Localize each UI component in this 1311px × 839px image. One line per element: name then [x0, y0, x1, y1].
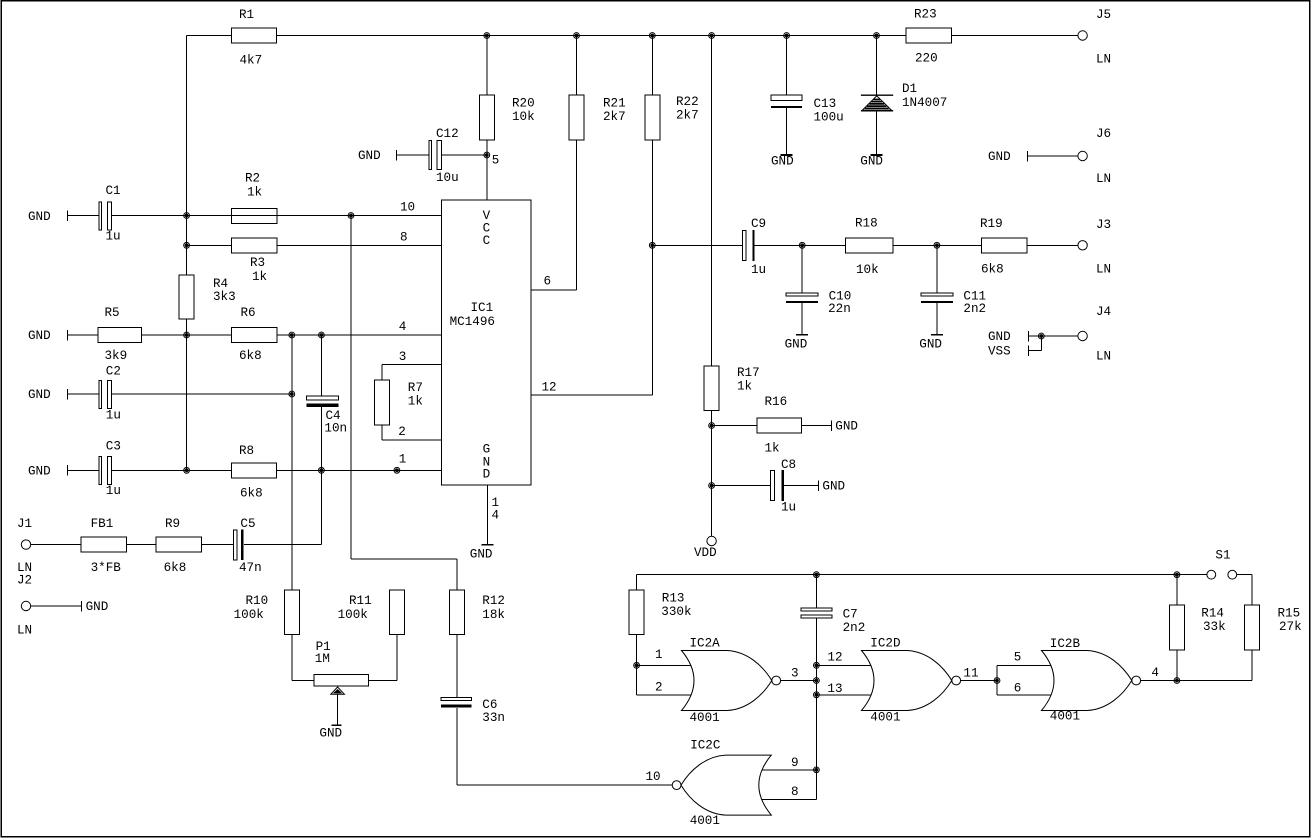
svg-text:4001: 4001 [690, 711, 720, 725]
capacitor C6 [441, 697, 505, 725]
svg-text:GND: GND [470, 547, 493, 561]
junction VCC-R17 [710, 34, 714, 38]
junction VCC-R20 [485, 34, 489, 38]
svg-text:GND: GND [919, 337, 942, 351]
svg-text:1u: 1u [106, 484, 121, 498]
svg-text:C2: C2 [106, 365, 121, 379]
wire R12 C6 to IC2C pin 10 [457, 635, 672, 786]
svg-text:12: 12 [827, 651, 842, 665]
svg-text:1: 1 [399, 453, 407, 467]
connector J5 [1078, 8, 1111, 67]
svg-text:GND: GND [319, 726, 342, 740]
capacitor C3 [99, 440, 121, 499]
svg-text:C1: C1 [106, 184, 121, 198]
junction R22-C9 [650, 243, 654, 247]
ground C1 [28, 210, 68, 224]
wire R17 VDD column [711, 36, 713, 537]
ground C3 [28, 464, 68, 478]
resistor R14 [1169, 605, 1225, 650]
wire R3 to pin 8 [187, 244, 442, 246]
junction pin11-IC2B [995, 679, 999, 683]
svg-text:100k: 100k [234, 608, 264, 622]
svg-text:R20: R20 [512, 97, 535, 111]
resistor R22 [645, 95, 699, 140]
svg-text:C7: C7 [843, 608, 858, 622]
svg-text:D: D [483, 468, 491, 482]
junction pin4-R10 [290, 333, 294, 337]
resistor R7 [374, 380, 423, 425]
connector J2 [17, 574, 32, 638]
wire R13 to IC2A inputs [637, 575, 691, 695]
svg-text:12: 12 [542, 381, 557, 395]
svg-text:GND: GND [28, 210, 51, 224]
ground J4 [988, 330, 1029, 344]
terminal VDD [694, 536, 717, 560]
svg-text:R7: R7 [408, 381, 423, 395]
svg-text:3: 3 [399, 350, 407, 364]
resistor R11 [338, 590, 405, 635]
wire J4 GND VSS [1028, 336, 1078, 351]
svg-text:6k8: 6k8 [981, 263, 1004, 277]
svg-text:2: 2 [398, 425, 406, 439]
diode D1 1N4007 [861, 82, 947, 111]
resistor R9 [156, 517, 201, 575]
junction pin12 [815, 663, 819, 667]
resistor R17 [704, 366, 760, 411]
ground C8 [819, 480, 846, 494]
svg-text:10: 10 [400, 201, 415, 215]
resistor R3 [232, 238, 278, 284]
wire IC2A output pin 3 [781, 680, 817, 682]
svg-text:J3: J3 [1096, 218, 1111, 232]
svg-text:FB1: FB1 [91, 517, 114, 531]
svg-text:4: 4 [399, 320, 407, 334]
wire IC2C input stubs [762, 770, 816, 800]
svg-text:LN: LN [1096, 263, 1111, 277]
svg-text:33n: 33n [482, 711, 505, 725]
nor gate IC2B [1042, 651, 1141, 711]
connector J4 [1078, 305, 1111, 364]
resistor R8 [232, 444, 277, 500]
capacitor C7 [801, 608, 865, 636]
svg-text:4001: 4001 [1050, 710, 1080, 724]
svg-text:VDD: VDD [694, 546, 717, 560]
svg-text:1M: 1M [315, 652, 330, 666]
node VSS [988, 345, 1029, 359]
capacitor C13 [771, 95, 844, 124]
nor gate IC2D [862, 651, 961, 711]
capacitor C12 [429, 127, 459, 185]
wire R15 leg to output row [1177, 650, 1252, 680]
ground C10 [785, 335, 809, 352]
svg-text:C3: C3 [106, 440, 121, 454]
nor gate IC2C mirrored [672, 755, 771, 815]
capacitor C8 [771, 458, 796, 515]
svg-text:GND: GND [988, 330, 1011, 344]
ground C11 [919, 335, 943, 352]
capacitor C1 [99, 184, 120, 244]
junction R17-R16 [710, 424, 714, 428]
resistor R23 [906, 8, 952, 66]
svg-text:GND: GND [28, 388, 51, 402]
wire R5 R6 to pin 4 [67, 334, 441, 336]
potentiometer P1 [314, 640, 369, 694]
capacitor C5 [234, 517, 262, 575]
svg-text:1u: 1u [106, 408, 121, 422]
wire R21 to pin 6 [531, 36, 577, 291]
svg-text:10k: 10k [856, 263, 879, 277]
wire J2 to GND [31, 605, 82, 607]
wire IC2B output pin 4 [1141, 680, 1177, 682]
svg-text:LN: LN [1096, 53, 1111, 67]
svg-text:IC2A: IC2A [690, 637, 721, 651]
svg-text:R6: R6 [241, 306, 256, 320]
ground R5 [28, 329, 68, 343]
nor gate IC2A [682, 637, 781, 726]
svg-text:6k8: 6k8 [164, 561, 187, 575]
svg-text:GND: GND [358, 149, 381, 163]
resistor R10 [234, 590, 300, 635]
junction VCC-C13 [785, 34, 789, 38]
svg-text:C4: C4 [326, 409, 341, 423]
resistor R16 [757, 395, 802, 456]
junction VCC-R21 [575, 34, 579, 38]
junction pin4-C4 [320, 333, 324, 337]
wire R20 branch [486, 36, 488, 201]
svg-text:220: 220 [915, 52, 938, 66]
resistor R21 [569, 95, 626, 140]
wire C9 R18 R19 row to J3 [652, 244, 1078, 246]
svg-text:R12: R12 [482, 594, 505, 608]
op-amp IC1 MC1496 box [441, 200, 531, 485]
junction rail-C7 [815, 573, 819, 577]
ground C13 [771, 154, 794, 168]
wire R7 to pin 2 [382, 425, 442, 440]
svg-text:J6: J6 [1096, 127, 1111, 141]
svg-text:1: 1 [655, 648, 663, 662]
svg-text:R22: R22 [676, 95, 699, 109]
svg-text:47n: 47n [239, 561, 262, 575]
svg-text:LN: LN [1096, 350, 1111, 364]
junction pin13 [815, 693, 819, 697]
wire C4 branch to pin 1 node and C5 [320, 335, 322, 545]
svg-text:J4: J4 [1096, 305, 1111, 319]
capacitor C11 [921, 289, 986, 316]
svg-text:1u: 1u [781, 501, 796, 515]
wire pin 4 node to R10 [291, 335, 293, 590]
svg-text:R5: R5 [105, 306, 120, 320]
resistor R15 [1245, 605, 1302, 650]
junction R17-C8 [710, 484, 714, 488]
svg-text:100k: 100k [338, 608, 368, 622]
svg-text:11: 11 [963, 667, 978, 681]
wire pin 3 to R7 [382, 364, 442, 380]
svg-text:3: 3 [791, 667, 799, 681]
wire oscillator top rail to S1 and R15 [637, 575, 1252, 606]
svg-text:C6: C6 [482, 698, 497, 712]
ground J2 [82, 600, 109, 614]
resistor R19 [980, 217, 1027, 277]
svg-text:5: 5 [492, 153, 500, 167]
svg-text:GND: GND [860, 154, 883, 168]
svg-text:GND: GND [785, 337, 808, 351]
svg-text:8: 8 [400, 230, 408, 244]
ground pin 14 [470, 545, 494, 562]
capacitor C4 [307, 396, 347, 436]
junction VCC-R22 [650, 34, 654, 38]
svg-text:GND: GND [28, 329, 51, 343]
svg-text:9: 9 [791, 756, 799, 770]
junction R5-R4 [185, 333, 189, 337]
svg-text:C12: C12 [436, 127, 459, 141]
svg-text:S1: S1 [1215, 548, 1230, 562]
resistor R18 [846, 216, 893, 277]
wire left bias column x=186.6 [186, 36, 188, 471]
ground P1 [319, 725, 342, 740]
svg-text:R1: R1 [239, 8, 254, 22]
svg-text:4: 4 [1151, 666, 1159, 680]
wire C11 branch [936, 245, 938, 334]
svg-text:GND: GND [988, 150, 1011, 164]
svg-text:MC1496: MC1496 [450, 315, 495, 329]
svg-text:2n2: 2n2 [843, 621, 866, 635]
svg-text:R3: R3 [250, 256, 265, 270]
svg-text:4001: 4001 [690, 814, 720, 828]
svg-text:2: 2 [655, 681, 663, 695]
svg-text:100u: 100u [814, 110, 844, 124]
svg-text:J2: J2 [17, 574, 32, 588]
ground D1 [860, 154, 883, 168]
wire C12 to pin 5 [397, 154, 487, 156]
connector J6 [1078, 127, 1111, 186]
svg-text:1k: 1k [252, 270, 267, 284]
svg-text:VSS: VSS [988, 345, 1011, 359]
junction C2 [290, 392, 294, 396]
svg-text:R9: R9 [165, 517, 180, 531]
wire D1 branch [876, 36, 878, 155]
resistor R1 [232, 8, 277, 68]
svg-text:10k: 10k [512, 110, 535, 124]
svg-text:GND: GND [28, 464, 51, 478]
svg-text:R13: R13 [662, 591, 685, 605]
resistor R20 [479, 95, 534, 140]
svg-text:C5: C5 [240, 517, 255, 531]
wire P1 wiper to ground [337, 694, 339, 724]
svg-text:1k: 1k [408, 395, 423, 409]
resistor R5 [98, 306, 142, 363]
junction pin5-C12 [485, 153, 489, 157]
junction J4-VSS [1039, 334, 1043, 338]
capacitor C9 [742, 217, 766, 277]
svg-text:IC1: IC1 [471, 301, 494, 315]
resistor R6 [232, 306, 278, 363]
junction C1 wire left column [185, 214, 189, 218]
svg-text:D1: D1 [902, 82, 917, 96]
svg-text:GND: GND [822, 480, 845, 494]
junction VCC-D1 [875, 34, 879, 38]
wire IC2D output pin 11 [961, 680, 997, 682]
svg-text:3*FB: 3*FB [91, 561, 122, 575]
svg-text:22n: 22n [828, 302, 851, 316]
svg-text:LN: LN [1096, 172, 1111, 186]
wire IC2D input stubs [816, 665, 870, 695]
svg-text:3k9: 3k9 [105, 349, 128, 363]
junction C3-R8 [185, 468, 189, 472]
capacitor C2 [99, 365, 121, 423]
ferrite bead FB1 [81, 517, 127, 575]
svg-text:GND: GND [835, 420, 858, 434]
svg-text:C13: C13 [814, 97, 837, 111]
svg-text:R19: R19 [980, 217, 1003, 231]
wire R16 row [712, 425, 832, 427]
svg-text:IC2B: IC2B [1050, 637, 1081, 651]
svg-text:10n: 10n [324, 422, 347, 436]
svg-text:GND: GND [771, 154, 794, 168]
junction rail-R14 [1175, 573, 1179, 577]
svg-text:33k: 33k [1203, 620, 1226, 634]
junction pin10-R12 column [349, 214, 353, 218]
wire J6 GND [1028, 155, 1078, 157]
resistor R13 [629, 590, 691, 635]
capacitor C10 [786, 289, 851, 316]
svg-text:R21: R21 [603, 97, 626, 111]
wire C2 row [67, 393, 292, 395]
svg-text:2k7: 2k7 [676, 109, 699, 123]
svg-text:13: 13 [827, 682, 842, 696]
junction pin1-R11 [395, 468, 399, 472]
junction pin9 [815, 768, 819, 772]
resistor R12 [449, 590, 505, 635]
svg-text:6: 6 [544, 275, 552, 289]
svg-text:4: 4 [492, 509, 500, 523]
ground C12 [358, 149, 397, 163]
svg-text:3k3: 3k3 [213, 290, 236, 304]
wire C3 R8 to pin 1 [67, 469, 441, 471]
wire J1 FB1 R9 C5 row [31, 544, 322, 546]
ground J6 [988, 150, 1028, 164]
switch S1 [1207, 548, 1237, 579]
resistor R2 [232, 172, 278, 224]
wire C10 branch [801, 245, 803, 334]
svg-text:R15: R15 [1278, 606, 1301, 620]
svg-text:4k7: 4k7 [240, 54, 263, 68]
junction R3 wire [185, 243, 189, 247]
svg-text:1k: 1k [765, 442, 780, 456]
svg-text:LN: LN [17, 624, 32, 638]
svg-text:R14: R14 [1201, 606, 1224, 620]
svg-text:J5: J5 [1096, 8, 1111, 22]
ground C2 [28, 388, 68, 402]
wire IC2B inputs pins 5 6 [997, 665, 1051, 695]
wire C7 feedback column [815, 575, 817, 800]
svg-text:IC2C: IC2C [690, 738, 721, 752]
wire C1 to pin 10 [67, 215, 441, 217]
wire R22 to pin 12 [531, 36, 652, 396]
svg-text:330k: 330k [661, 605, 691, 619]
svg-text:R10: R10 [246, 594, 269, 608]
svg-text:8: 8 [791, 785, 799, 799]
svg-text:27k: 27k [1279, 620, 1302, 634]
wire C8 row [712, 485, 819, 487]
svg-text:1k: 1k [247, 186, 262, 200]
svg-text:IC2D: IC2D [870, 637, 900, 651]
svg-text:6k8: 6k8 [239, 349, 262, 363]
junction pin3 [815, 679, 819, 683]
svg-text:6: 6 [1014, 682, 1022, 696]
svg-text:G: G [483, 443, 491, 457]
wire VCC top rail [187, 35, 1078, 37]
svg-text:GND: GND [86, 600, 109, 614]
junction C11 [935, 243, 939, 247]
wire pin 14 to ground [486, 485, 488, 544]
svg-text:C: C [483, 234, 491, 248]
svg-text:R8: R8 [239, 444, 254, 458]
svg-text:2n2: 2n2 [963, 302, 986, 316]
svg-text:J1: J1 [17, 517, 32, 531]
wire R14 legs [1176, 575, 1178, 681]
svg-text:1u: 1u [106, 230, 121, 244]
svg-text:10u: 10u [436, 171, 459, 185]
svg-text:10: 10 [646, 770, 661, 784]
svg-text:1N4007: 1N4007 [902, 96, 947, 110]
connector J3 [1078, 218, 1111, 277]
svg-text:1k: 1k [737, 380, 752, 394]
svg-text:C9: C9 [751, 217, 766, 231]
ground R16 [832, 420, 858, 434]
svg-text:4001: 4001 [870, 711, 900, 725]
connector J1 [17, 517, 32, 575]
wire pin 10 node to R12 [351, 216, 457, 590]
junction pin4-R14 [1175, 679, 1179, 683]
svg-text:R18: R18 [855, 216, 878, 230]
svg-text:R16: R16 [765, 395, 788, 409]
junction C10 [800, 243, 804, 247]
svg-text:C8: C8 [781, 458, 796, 472]
svg-text:5: 5 [1014, 651, 1022, 665]
pin 14 label [492, 496, 500, 523]
junction R13-pin1 [635, 663, 639, 667]
svg-text:R2: R2 [245, 172, 260, 186]
resistor R4 [179, 275, 235, 319]
junction pin1-C4 [320, 468, 324, 472]
svg-text:R17: R17 [737, 366, 760, 380]
svg-text:6k8: 6k8 [240, 486, 263, 500]
svg-text:18k: 18k [482, 608, 505, 622]
svg-text:R23: R23 [914, 8, 937, 22]
svg-text:R11: R11 [349, 594, 372, 608]
wire C13 branch [786, 36, 788, 155]
wire R10 R11 to P1 ends [292, 635, 397, 681]
svg-text:1u: 1u [751, 263, 766, 277]
svg-text:2k7: 2k7 [603, 110, 626, 124]
